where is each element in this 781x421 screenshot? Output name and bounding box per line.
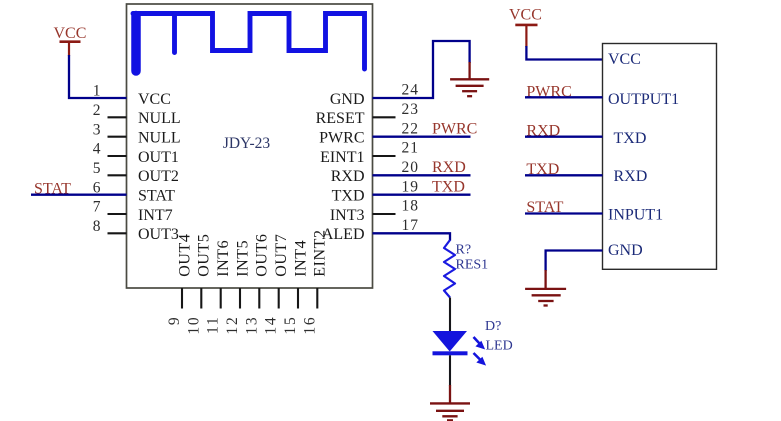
svg-text:24: 24 — [402, 82, 420, 99]
svg-text:GND: GND — [608, 242, 643, 259]
pin 4 stub — [108, 155, 127, 157]
svg-text:RXD: RXD — [614, 168, 648, 185]
ground symbol (LED) — [430, 403, 470, 420]
svg-text:STAT: STAT — [138, 188, 175, 205]
svg-text:EINT1: EINT1 — [320, 149, 364, 166]
ground symbol (pin 24) — [450, 79, 489, 96]
svg-text:17: 17 — [402, 217, 420, 234]
svg-text:TXD: TXD — [332, 188, 365, 205]
svg-text:16: 16 — [301, 316, 318, 335]
svg-text:INT3: INT3 — [330, 207, 365, 224]
svg-text:9: 9 — [166, 316, 183, 326]
svg-text:NULL: NULL — [138, 110, 181, 127]
wire pin 24 to ground — [373, 41, 470, 98]
wire TXD to RXD — [525, 174, 603, 176]
LED D1 triangle — [433, 331, 468, 352]
bottom pin numbers 9-16 (rotated) — [166, 316, 318, 335]
svg-text:INT4: INT4 — [292, 240, 309, 277]
wire PWRC to OUTPUT1 — [525, 96, 603, 98]
svg-text:OUTPUT1: OUTPUT1 — [608, 91, 679, 108]
pin 2 stub — [108, 116, 127, 118]
svg-text:INT6: INT6 — [215, 240, 232, 277]
wire pin 17 to resistor — [373, 233, 451, 240]
power symbol VCC (right) — [509, 7, 542, 48]
svg-text:7: 7 — [93, 199, 101, 216]
bottom pins 9-16 stubs — [182, 288, 317, 309]
svg-text:INT5: INT5 — [234, 240, 251, 277]
svg-text:2: 2 — [93, 102, 101, 119]
pin 23 stub — [373, 116, 396, 118]
svg-text:PWRC: PWRC — [432, 121, 477, 138]
pin 3 stub — [108, 136, 127, 138]
power symbol VCC (left) — [54, 25, 87, 56]
svg-text:RESET: RESET — [316, 110, 365, 127]
LED arrow 2 — [474, 353, 486, 365]
svg-text:OUT3: OUT3 — [138, 226, 179, 243]
svg-text:20: 20 — [402, 159, 420, 176]
wire GND to ground — [546, 251, 603, 272]
svg-text:VCC: VCC — [138, 91, 171, 108]
svg-text:19: 19 — [402, 178, 420, 195]
wire VCC to connector — [526, 46, 602, 60]
pin 18 stub — [373, 213, 396, 215]
ground symbol (connector) — [525, 289, 566, 306]
svg-text:OUT7: OUT7 — [273, 234, 290, 277]
svg-text:VCC: VCC — [608, 51, 641, 68]
wire RXD to TXD — [525, 136, 603, 138]
svg-text:D?: D? — [485, 319, 501, 334]
svg-text:VCC: VCC — [509, 7, 542, 24]
svg-text:INPUT1: INPUT1 — [608, 206, 663, 223]
antenna stub — [172, 14, 177, 53]
svg-text:22: 22 — [402, 120, 420, 137]
svg-text:11: 11 — [205, 316, 222, 335]
svg-text:4: 4 — [93, 141, 101, 158]
svg-text:23: 23 — [402, 101, 420, 118]
svg-text:3: 3 — [93, 121, 101, 138]
svg-text:18: 18 — [402, 198, 420, 215]
svg-text:5: 5 — [93, 160, 101, 177]
svg-text:R?: R? — [456, 243, 472, 258]
bottom pin names OUT4 OUT5 INT6 INT5 OUT6 OUT7 INT4 EINT2 (rotated) — [176, 229, 328, 276]
svg-text:TXD: TXD — [614, 130, 647, 147]
ground lead (LED) — [449, 385, 451, 403]
wire STAT to INPUT1 — [525, 212, 603, 214]
svg-text:LED: LED — [486, 339, 513, 354]
wire VCC to pin 1 — [69, 55, 127, 98]
svg-text:VCC: VCC — [54, 25, 87, 42]
svg-text:TXD: TXD — [432, 179, 465, 196]
svg-text:RXD: RXD — [331, 168, 365, 185]
ground lead (pin 24) — [468, 62, 470, 79]
connector J1 box — [603, 44, 717, 270]
wire STAT to pin 6 — [31, 194, 127, 196]
svg-text:14: 14 — [263, 316, 280, 335]
wire pin 19 TXD — [373, 194, 471, 196]
svg-text:RXD: RXD — [432, 159, 466, 176]
svg-text:JDY-23: JDY-23 — [223, 135, 271, 152]
svg-text:15: 15 — [282, 316, 299, 335]
svg-text:12: 12 — [224, 316, 241, 335]
svg-text:6: 6 — [93, 179, 101, 196]
svg-text:OUT1: OUT1 — [138, 149, 179, 166]
svg-text:13: 13 — [243, 316, 260, 335]
wire resistor to LED — [449, 298, 451, 332]
antenna meander trace — [133, 14, 365, 70]
resistor R1 zigzag — [444, 240, 455, 298]
ground lead (connector) — [544, 270, 546, 289]
wire LED to ground — [449, 355, 451, 386]
svg-text:OUT5: OUT5 — [196, 234, 213, 277]
svg-text:OUT2: OUT2 — [138, 168, 179, 185]
svg-text:NULL: NULL — [138, 130, 181, 147]
svg-text:1: 1 — [93, 83, 101, 100]
pin 8 stub — [108, 232, 127, 234]
svg-text:OUT6: OUT6 — [254, 234, 271, 277]
svg-text:PWRC: PWRC — [319, 130, 364, 147]
svg-text:8: 8 — [93, 218, 101, 235]
svg-text:INT7: INT7 — [138, 207, 173, 224]
svg-text:GND: GND — [330, 91, 365, 108]
LED cathode bar — [433, 351, 468, 355]
svg-text:OUT4: OUT4 — [176, 234, 193, 277]
pin 21 stub — [373, 155, 396, 157]
wire pin 20 RXD — [373, 174, 471, 176]
pin 5 stub — [108, 174, 127, 176]
IC U1 JDY-23 box — [127, 4, 373, 288]
LED arrow 1 — [474, 337, 485, 349]
svg-text:10: 10 — [185, 316, 202, 335]
svg-text:RES1: RES1 — [456, 258, 489, 273]
svg-text:21: 21 — [402, 140, 420, 157]
svg-text:EINT2: EINT2 — [312, 229, 329, 276]
antenna feed bar — [131, 16, 141, 72]
pin 7 stub — [108, 213, 127, 215]
wire pin 22 PWRC — [373, 136, 471, 138]
